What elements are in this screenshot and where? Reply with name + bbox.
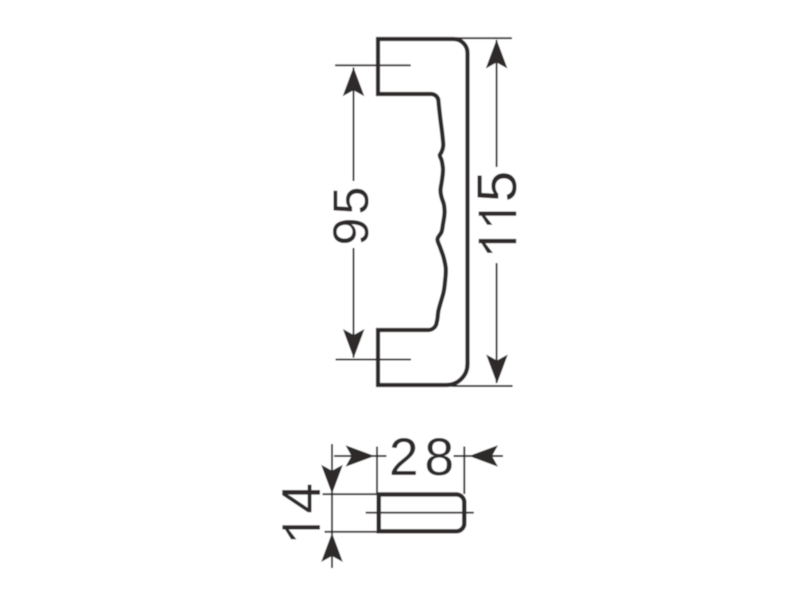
cross-section rounded rectangle (bottom view) [379, 494, 465, 531]
arrowhead 14 pointing up [321, 533, 343, 562]
extension line top for 14 [323, 493, 382, 495]
center line of cross-section [366, 512, 474, 514]
white gap behind 28 label [388, 438, 453, 474]
label 14: digit 1 [282, 525, 320, 539]
arrowhead 115 top [486, 40, 508, 69]
extension line right for 28 [463, 447, 465, 495]
dimension line 95 lower segment [353, 248, 355, 358]
extension line bottom for 14 [325, 531, 382, 533]
dimension line 14 [331, 444, 333, 568]
label 115: second digit 1 [479, 239, 517, 253]
arrowhead 28 pointing right [346, 445, 375, 467]
extension line left for 28 [376, 447, 378, 495]
arrowhead 95 bottom [343, 329, 365, 358]
handle profile outline (side view) [378, 39, 468, 385]
svg-text:5: 5 [465, 171, 528, 202]
extension line top for 115 [452, 37, 512, 39]
svg-text:28: 28 [389, 428, 460, 487]
dimension line 115 lower segment [496, 263, 498, 383]
arrowhead 28 pointing left [469, 445, 498, 467]
dimension line 95 upper segment [353, 68, 355, 182]
svg-text:4: 4 [271, 483, 332, 513]
label 115: first digit 1 [479, 212, 517, 225]
dimension line 28 right tail [454, 455, 504, 457]
dimension line 115 upper segment [496, 40, 498, 167]
svg-text:95: 95 [323, 184, 379, 246]
dimension line 28 left tail [334, 455, 387, 457]
arrowhead 95 top [343, 67, 365, 96]
extension line bottom for 115 [452, 385, 513, 387]
extension line bottom for 95 [336, 359, 412, 361]
arrowhead 115 bottom [486, 355, 508, 384]
arrowhead 14 pointing down [321, 465, 343, 494]
extension line top for 95 [335, 64, 411, 66]
